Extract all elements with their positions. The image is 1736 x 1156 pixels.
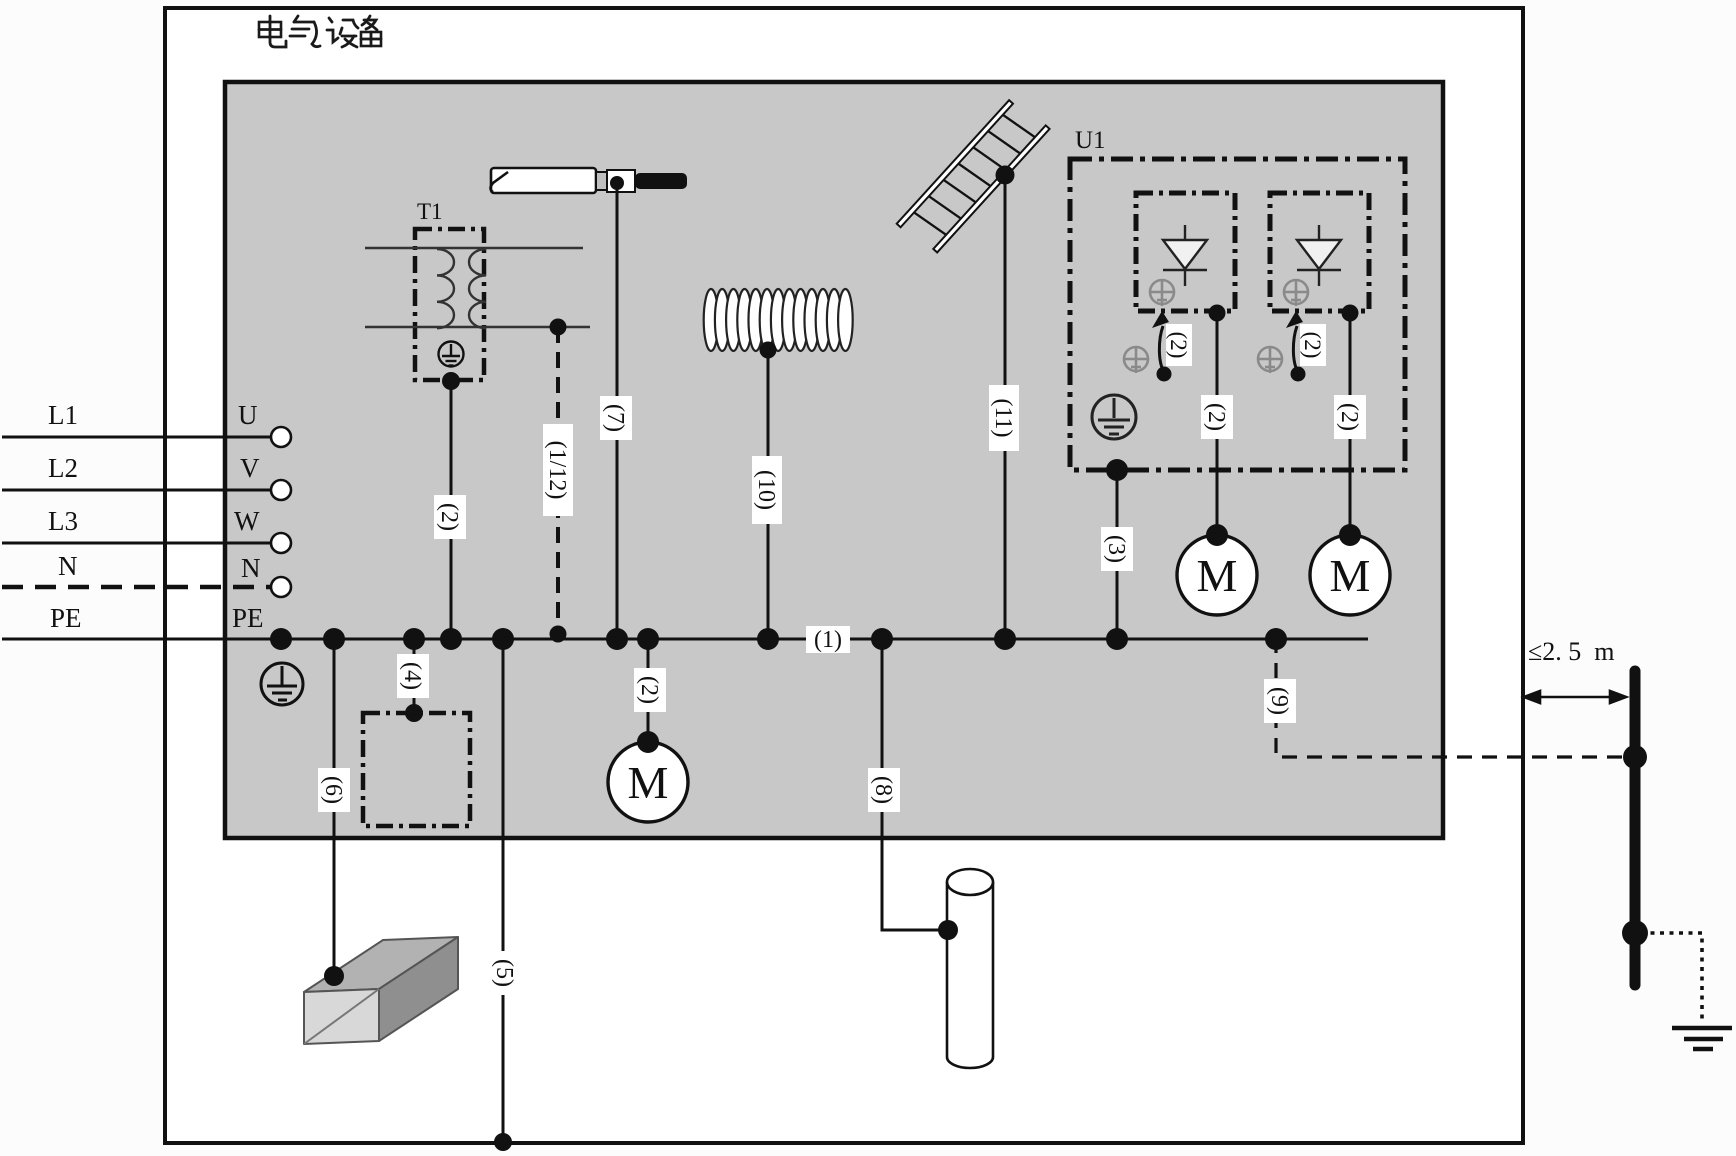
label (7) chip — [600, 396, 632, 440]
label (10) chip — [752, 456, 782, 524]
svg-text:N: N — [58, 551, 78, 581]
svg-text:L3: L3 — [48, 506, 78, 536]
wire to motor M1 — [1216, 313, 1219, 535]
svg-text:≤2. 5 m: ≤2. 5 m — [1528, 637, 1615, 666]
svg-text:L2: L2 — [48, 453, 78, 483]
wire (5) — [502, 639, 505, 1143]
pipe — [947, 869, 993, 1068]
svg-text:(4): (4) — [399, 662, 425, 690]
junction wire (2) motor — [637, 628, 659, 650]
dashed conductor (1/12) — [556, 327, 560, 630]
svg-text:(9): (9) — [1266, 687, 1292, 715]
label (5) chip — [489, 951, 521, 995]
PE conductor + bus (1) — [2, 638, 1368, 641]
PE ground symbol inside enclosure — [261, 663, 303, 705]
motor M bottom — [647, 639, 650, 742]
junction wire (8) — [871, 628, 893, 650]
svg-text:(1): (1) — [814, 627, 842, 653]
label (1) chip on bus — [806, 626, 850, 653]
label (2) chip small 1 — [1166, 324, 1192, 366]
svg-text:(2): (2) — [1203, 403, 1229, 431]
T1 bottom junction — [442, 372, 460, 390]
junction PE terminal — [270, 628, 292, 650]
earth electrode rod — [1630, 671, 1641, 985]
svg-text:(3): (3) — [1103, 535, 1129, 563]
svg-text:(2): (2) — [436, 503, 462, 531]
junction on torch — [610, 176, 624, 190]
label (1/12) chip — [543, 424, 573, 516]
label (2) chip M1 — [1201, 395, 1233, 439]
feeder L2 — [2, 489, 272, 492]
equipment internal gray box — [225, 82, 1443, 838]
wire to motor M2 — [1349, 313, 1352, 535]
wire (7) — [616, 183, 619, 639]
thyristor module box 2 — [1270, 193, 1369, 311]
wire (8) — [882, 639, 948, 930]
svg-text:(7): (7) — [602, 404, 628, 432]
svg-text:T1: T1 — [417, 199, 443, 224]
motor M1 — [1177, 535, 1257, 615]
bonding arrow 2 — [1286, 311, 1306, 382]
svg-text:M: M — [1197, 550, 1238, 601]
label (2) chip M2 — [1334, 395, 1366, 439]
junction on ladder — [996, 166, 1015, 185]
svg-text:(2): (2) — [1300, 332, 1325, 359]
screw earth symbol lower left — [1124, 347, 1148, 373]
svg-text:L1: L1 — [48, 400, 78, 430]
terminal V — [271, 480, 291, 500]
wire (6) — [333, 639, 336, 976]
junction wire (10) — [757, 628, 779, 650]
terminal N — [271, 577, 291, 597]
earth symbol — [1672, 1028, 1732, 1049]
thyristor 1 — [1163, 225, 1207, 286]
wire (2) from T1 to PE bus — [450, 381, 453, 639]
screw earth symbol box1 — [1150, 280, 1174, 306]
terminal W — [271, 533, 291, 553]
svg-text:V: V — [240, 453, 260, 483]
svg-text:U: U — [238, 400, 258, 430]
label (6) chip — [318, 768, 350, 812]
T1 earth symbol — [439, 342, 464, 367]
feeder L1 — [2, 436, 272, 439]
label (8) chip — [868, 768, 900, 812]
svg-text:(2): (2) — [1336, 403, 1362, 431]
heater coil (10) — [704, 289, 853, 351]
motor M2 — [1310, 535, 1390, 615]
cable ladder — [897, 96, 1050, 257]
svg-text:U1: U1 — [1075, 127, 1106, 154]
junction wire (2) T1 — [440, 628, 462, 650]
label (2) chip small 2 — [1300, 324, 1326, 366]
设 — [327, 18, 358, 47]
svg-text:PE: PE — [232, 603, 264, 633]
U1 earth symbol — [1092, 395, 1136, 439]
metal beam — [304, 937, 458, 1044]
junction wire (3) — [1106, 628, 1128, 650]
hand tool (torch) — [491, 168, 688, 193]
junction wire (7) — [606, 628, 628, 650]
svg-text:PE: PE — [50, 603, 82, 633]
T1 windings — [437, 249, 486, 328]
wire (4) — [413, 639, 416, 713]
U1 bottom junction — [1106, 459, 1128, 481]
svg-text:N: N — [241, 553, 261, 583]
junction on rod (9) — [1623, 745, 1647, 769]
box (4) dash-dot — [363, 713, 470, 826]
transformer T1 box — [415, 229, 484, 380]
bus junction dots — [270, 628, 1287, 650]
screw earth symbol lower right — [1258, 347, 1282, 373]
svg-text:W: W — [234, 506, 260, 536]
junction wire (6) — [323, 628, 345, 650]
junction on rod lower — [1622, 920, 1648, 946]
outer equipment frame — [165, 8, 1523, 1143]
svg-text:(6): (6) — [320, 776, 346, 804]
bonding arrow 1 — [1152, 311, 1172, 382]
svg-text:(2): (2) — [1166, 332, 1191, 359]
svg-text:(5): (5) — [491, 959, 517, 987]
dotted earthing lead — [1641, 933, 1702, 1024]
label (3) chip — [1101, 527, 1133, 571]
screw earth symbol box2 — [1284, 280, 1308, 306]
svg-text:(1/12): (1/12) — [544, 441, 570, 500]
电 — [259, 16, 286, 47]
dimension arrow — [1524, 691, 1626, 703]
wire (10) — [767, 350, 770, 639]
wire (11) — [1004, 175, 1007, 639]
svg-text:M: M — [628, 757, 669, 808]
svg-text:(8): (8) — [870, 776, 896, 804]
junction on coil — [760, 342, 777, 359]
junction wire (5) — [492, 628, 514, 650]
svg-text:M: M — [1330, 550, 1371, 601]
T1 secondary wire — [365, 326, 590, 328]
junction wire (4) — [403, 628, 425, 650]
label (4) chip — [397, 654, 429, 698]
svg-text:(2): (2) — [636, 676, 662, 704]
wire (3) — [1116, 470, 1119, 639]
junction wire (11) — [994, 628, 1016, 650]
label (11) chip — [989, 385, 1019, 451]
junction on secondary — [550, 319, 567, 336]
terminal U — [271, 427, 291, 447]
title 电气设备 (drawn strokes) — [259, 16, 381, 47]
T1 primary wire — [365, 247, 583, 249]
气 — [290, 16, 320, 47]
thyristor module box 1 — [1136, 193, 1235, 311]
U1 converter enclosure box — [1070, 159, 1405, 470]
label (9) chip — [1264, 679, 1296, 723]
feeder L3 — [2, 542, 272, 545]
junction at bus end — [550, 626, 567, 643]
junction wire (9) — [1265, 628, 1287, 650]
thyristor 2 — [1297, 225, 1341, 286]
备 — [361, 16, 381, 46]
svg-text:(11): (11) — [990, 398, 1016, 437]
dashed wire (9) — [1276, 638, 1629, 757]
feeder N dashed — [2, 585, 272, 590]
svg-text:(10): (10) — [753, 470, 779, 510]
label (2) chip — [434, 495, 466, 539]
